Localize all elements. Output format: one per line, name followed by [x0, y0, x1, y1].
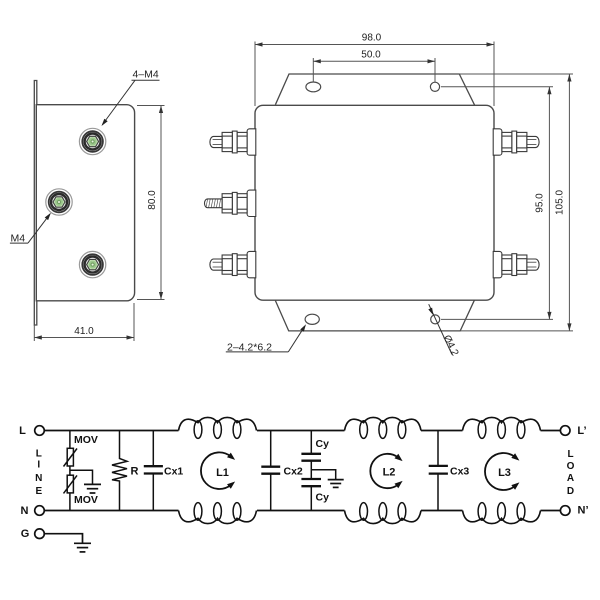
dimension 98.0 (top view width)	[255, 42, 494, 107]
svg-text:L2: L2	[383, 467, 396, 479]
svg-text:MOV: MOV	[74, 494, 98, 506]
svg-text:L’: L’	[577, 425, 586, 437]
capacitor Cx3	[429, 431, 448, 511]
svg-text:L: L	[567, 449, 573, 460]
svg-text:I: I	[37, 460, 40, 471]
choke L1 bottom winding	[179, 511, 257, 524]
wire N bottom line	[44, 510, 560, 512]
label 4-M4 with leader	[102, 69, 160, 127]
svg-text:105.0: 105.0	[555, 190, 566, 215]
svg-text:98.0: 98.0	[362, 33, 382, 44]
wire G to ground	[44, 534, 82, 544]
dimension 105.0 (flange overall height)	[459, 74, 573, 331]
resistor R	[112, 431, 127, 511]
varistor MOV1	[64, 431, 78, 476]
svg-text:N: N	[21, 505, 29, 517]
dimension 95.0 (hole vertical spacing)	[441, 87, 553, 320]
varistor MOV2	[64, 475, 78, 510]
schematic wires group	[44, 431, 560, 511]
L3 flux arrow	[485, 453, 515, 490]
screw terminal top (side view)	[79, 128, 105, 154]
load-side terminal 2 (top view right, lower)	[493, 251, 539, 277]
ground (Cy midpoint)	[328, 480, 344, 488]
svg-text:80.0: 80.0	[147, 190, 158, 210]
svg-text:95.0: 95.0	[535, 193, 546, 213]
label M4 with leader	[10, 213, 51, 245]
svg-text:50.0: 50.0	[361, 49, 381, 60]
capacitor Cy lower	[301, 461, 321, 511]
capacitor Cx1	[144, 431, 163, 511]
top flange round hole	[430, 82, 439, 91]
ground (MOV midpoint)	[84, 484, 101, 493]
capacitor Cy upper	[301, 431, 321, 461]
bottom flange round hole dia 4.2	[431, 315, 440, 324]
top view: top mounting flange	[275, 74, 474, 105]
svg-text:Cy: Cy	[316, 492, 330, 504]
terminal G	[35, 529, 45, 539]
screw terminal middle (side view)	[46, 189, 72, 215]
side view: filter body outline	[36, 105, 134, 301]
screw terminal bottom (side view)	[79, 251, 105, 277]
MOV midpoint wire to ground	[70, 470, 93, 484]
dimension 41.0 (side view width)	[34, 303, 134, 341]
svg-text:L: L	[19, 425, 26, 437]
LINE vertical label	[35, 449, 42, 498]
terminal N'	[560, 506, 570, 516]
choke L3 top winding	[463, 417, 541, 430]
L2 flux arrow	[370, 454, 398, 488]
terminal L	[35, 426, 45, 436]
label 2-4.2*6.2 with leader	[226, 324, 306, 353]
top view: bottom mounting flange	[275, 300, 474, 331]
top flange slot hole 4.2x6.2	[306, 82, 321, 92]
label dia 4.2 with leader	[428, 304, 460, 358]
load-side terminal 1 (top view right, upper)	[493, 129, 539, 155]
svg-text:L: L	[36, 449, 42, 460]
svg-text:MOV: MOV	[74, 434, 98, 446]
terminal N	[35, 506, 45, 516]
LOAD vertical label	[567, 449, 575, 497]
svg-text:Ø4.2: Ø4.2	[441, 333, 461, 358]
dimension 50.0 (hole spacing)	[313, 58, 435, 82]
choke L1 top winding	[179, 417, 257, 430]
line-side terminal 1 (top view left, upper)	[210, 129, 256, 155]
svg-text:D: D	[567, 486, 574, 497]
ground (G terminal)	[74, 543, 91, 552]
terminal labels	[19, 425, 588, 540]
svg-text:4–M4: 4–M4	[133, 69, 159, 81]
svg-text:O: O	[567, 461, 575, 472]
svg-text:L1: L1	[216, 467, 229, 479]
svg-text:L3: L3	[498, 467, 511, 479]
svg-text:E: E	[35, 486, 42, 497]
svg-text:N: N	[35, 473, 42, 484]
dimension 80.0 (side view height)	[137, 106, 165, 300]
wire L top line	[44, 430, 560, 432]
svg-text:Cx3: Cx3	[450, 465, 469, 477]
line-side terminal 3 (top view left, lower)	[210, 251, 256, 277]
svg-text:R: R	[131, 465, 139, 477]
svg-text:Cx1: Cx1	[164, 465, 183, 477]
svg-text:Cy: Cy	[316, 438, 330, 450]
Cy midpoint wire to ground	[311, 470, 335, 480]
choke L2 bottom winding	[345, 511, 422, 524]
terminal L'	[560, 426, 570, 436]
bottom flange slot hole 4.2x6.2	[305, 314, 319, 324]
line-side ground stud terminal (top view left, middle)	[205, 190, 256, 216]
svg-text:41.0: 41.0	[74, 326, 94, 337]
L1 flux arrow	[201, 452, 231, 489]
svg-text:N’: N’	[578, 505, 589, 517]
svg-text:G: G	[21, 528, 30, 540]
choke L2 top winding	[345, 417, 422, 430]
top view: filter body	[255, 105, 494, 300]
choke L3 bottom winding	[463, 511, 541, 524]
svg-text:Cx2: Cx2	[284, 465, 303, 477]
side view: mounting bracket flange	[34, 81, 37, 326]
capacitor Cx2	[261, 431, 280, 511]
svg-text:A: A	[567, 473, 574, 484]
